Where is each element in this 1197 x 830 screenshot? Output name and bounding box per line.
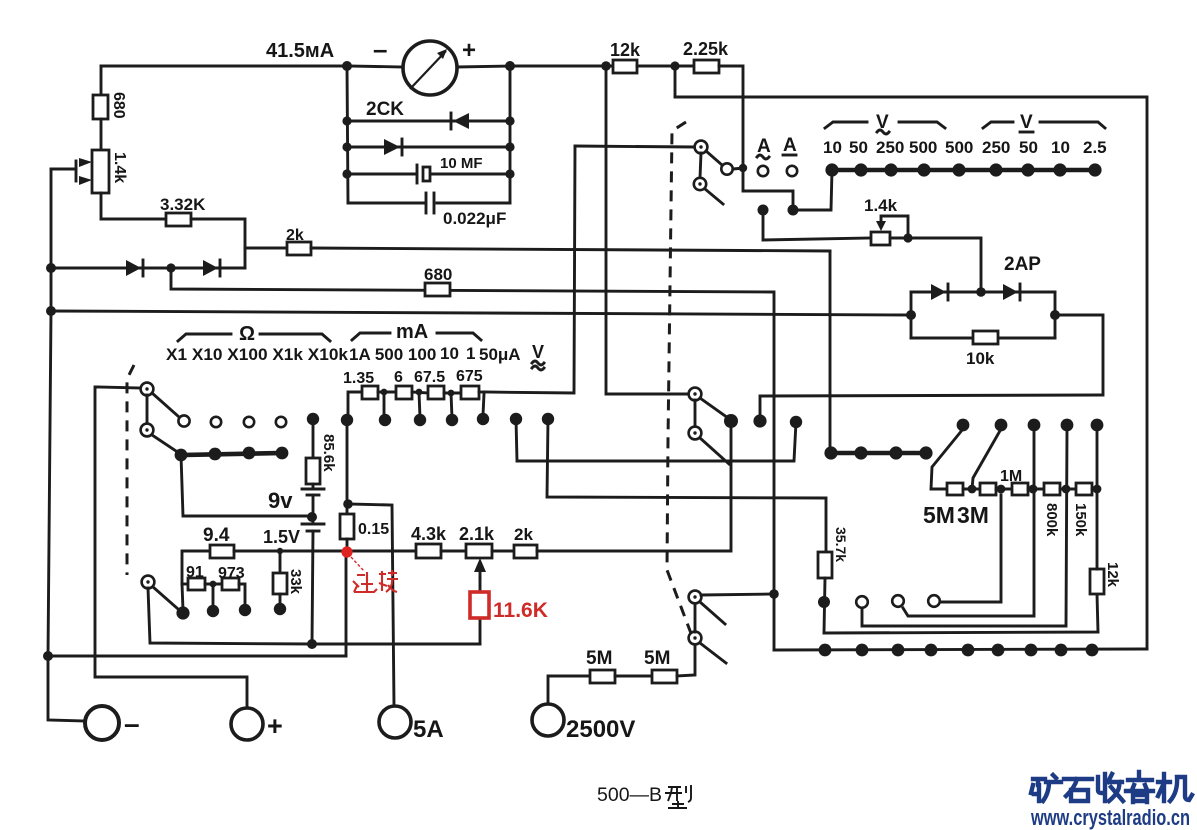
diode D2 pointing right (384, 139, 400, 155)
svg-text:10k: 10k (966, 349, 995, 368)
jack A- terminal (787, 166, 797, 176)
svg-text:1.5V: 1.5V (263, 527, 300, 547)
switch S3 contact F (689, 591, 702, 604)
switch S2 blade lower open (700, 438, 729, 464)
svg-text:–: – (373, 34, 387, 64)
wire jog to V bus (793, 170, 832, 210)
diode D1 2CK pointing left (453, 113, 469, 129)
switch S5 blade (153, 587, 178, 609)
wire 2.25k right and drop (719, 66, 793, 210)
wire dot5 vertical (1096, 429, 1099, 489)
wire node e right end (1092, 488, 1097, 491)
junction pivot vertical (739, 164, 747, 172)
wire capacitor row 10MF (347, 173, 416, 176)
junction row2 left (342, 116, 351, 125)
stub 213 down (212, 584, 215, 608)
wire 91 to 973 (205, 583, 222, 586)
wire bridge right to long drop (760, 315, 1103, 421)
wire to 9V battery (312, 484, 315, 489)
resistor R 5M chain (947, 483, 963, 495)
wire pot to bridge (890, 238, 981, 292)
svg-text:10: 10 (1051, 138, 1070, 157)
switch S4 blade upper (152, 393, 179, 417)
resistor R 6 (396, 386, 412, 399)
svg-text:www.crystalradio.cn: www.crystalradio.cn (1030, 805, 1190, 830)
wire meter left lead (347, 66, 403, 67)
svg-text:675: 675 (456, 368, 483, 385)
resistor R 1.35 (362, 386, 378, 399)
junction diode row middle (166, 263, 175, 272)
junction meter right (505, 61, 515, 71)
wire 12k to 2.25k (637, 65, 694, 68)
svg-text:10 MF: 10 MF (440, 155, 483, 172)
wire 2k drop to mid bus (830, 251, 831, 453)
diode D4 pointing right (203, 260, 218, 276)
watermark shi glyph (1064, 779, 1092, 801)
svg-text:50: 50 (1019, 138, 1038, 157)
wire y656 (48, 655, 346, 658)
bracket mA (352, 333, 390, 340)
wire wiper down through 11.6K mod (479, 578, 482, 644)
switch contact circle c (928, 595, 940, 607)
wire dot347 down to 0.15 (346, 420, 349, 514)
svg-text:1A 500 100: 1A 500 100 (349, 345, 436, 364)
svg-text:6: 6 (394, 369, 403, 386)
wire row2 down to battery junction (181, 455, 312, 516)
main line segment (441, 550, 466, 553)
stub 182 down (182, 584, 183, 610)
svg-text:10: 10 (440, 344, 459, 363)
svg-text:5M: 5M (644, 648, 670, 669)
terminal 5A (379, 706, 411, 738)
wire mA tap 516 (516, 419, 796, 461)
svg-text:50μA: 50μA (479, 345, 521, 364)
svg-text:12k: 12k (610, 40, 641, 60)
wire mA tap 548 (547, 419, 826, 552)
svg-text:–: – (124, 708, 140, 739)
svg-text:Ω: Ω (239, 323, 255, 345)
svg-text:+: + (267, 711, 283, 741)
main line segment (492, 550, 514, 553)
resistor R 973 (222, 578, 239, 590)
svg-text:500—B: 500—B (597, 784, 662, 806)
mA shunt row wire left end (348, 392, 362, 420)
upper contact dots (957, 419, 970, 432)
wire capacitor row 0.022 (348, 202, 424, 205)
wire between 5M (615, 675, 652, 678)
wire 973 right corner down (239, 584, 245, 607)
wire 0.15 below to y656 (345, 552, 348, 656)
bracket V~ group (825, 122, 867, 128)
svg-text:2.25k: 2.25k (683, 39, 729, 59)
wire 680-line from diode junction (171, 268, 774, 650)
diode D6 2AP (1003, 284, 1018, 300)
jack A~ terminal (758, 166, 768, 176)
junction dots V bus (825, 163, 838, 176)
wire top rail from left corner to meter (101, 65, 347, 68)
bracket V- group (983, 122, 1013, 128)
SECTION: middle (43, 61, 826, 706)
switch S1 contact C (694, 178, 706, 190)
watermark yin glyph (1126, 772, 1153, 802)
wire 5M to switch S3 (677, 645, 695, 676)
dashed linkage left (127, 365, 134, 575)
wire long line y312 to bridge (51, 311, 912, 315)
svg-text:3M: 3M (957, 502, 989, 528)
wire pot bottom to 3.32K (101, 193, 166, 219)
junction left of jog (758, 205, 769, 216)
junction 0.15 top (343, 499, 353, 509)
svg-text:3.32K: 3.32K (160, 195, 206, 214)
svg-text:800k: 800k (1043, 503, 1060, 537)
label xing glyph (665, 785, 691, 808)
wire V bus (831, 168, 1095, 173)
wire pivot to vertical (733, 168, 744, 169)
junction row4 right (505, 169, 514, 178)
stub to dot (383, 392, 386, 418)
switch S3 contact G (689, 632, 702, 645)
junction y644 (307, 639, 317, 649)
wire left branch vertical (347, 66, 348, 203)
switch S1 blade to pivot (706, 151, 722, 165)
resistor R 1M chain (1012, 483, 1028, 495)
switch S4 wire in (97, 387, 141, 388)
svg-text:V: V (1020, 112, 1033, 133)
switch contact circle a (856, 596, 868, 608)
resistor R 680 (top left, vertical) (93, 95, 108, 119)
junction meter left (342, 61, 352, 71)
resistor R 2k (upper) (287, 242, 311, 255)
wire diode row 2CK (347, 120, 510, 123)
svg-text:680: 680 (424, 265, 452, 284)
svg-text:150k: 150k (1072, 503, 1089, 537)
junction left rail long line (46, 306, 56, 316)
resistor R 800k chain (1044, 483, 1060, 495)
resistor R 680 (middle) (425, 283, 450, 296)
wire box top edge (675, 97, 1147, 649)
wire node a (963, 488, 980, 491)
resistor R 35.7k vertical (818, 552, 832, 578)
junction row4 left (342, 169, 351, 178)
battery B2 1.5V (302, 523, 324, 526)
wire node c (1028, 488, 1044, 491)
junction battery mid (307, 512, 317, 522)
contact dots row1 filled (307, 413, 319, 425)
wire bottom bus (774, 649, 1147, 650)
dashed switch linkage upper (667, 122, 692, 636)
contact dots under wafer (176, 606, 189, 619)
resistor R 33k vertical (273, 573, 287, 594)
resistor R 67.5 (428, 386, 444, 399)
wire to 1.4k pot (763, 210, 871, 240)
watermark kuang glyph (1031, 775, 1061, 801)
svg-text:9.4: 9.4 (203, 525, 230, 546)
junction at top rail (601, 61, 611, 71)
switch S1 contact A (695, 141, 708, 154)
svg-text:5M: 5M (586, 648, 612, 669)
meter M1 (galvanometer) (403, 41, 457, 95)
switch contact circle b (892, 595, 904, 607)
junction blade dot (724, 414, 738, 428)
wire bottom return to 12k (824, 594, 1098, 633)
main line to right riser (537, 421, 731, 551)
junction bridge top (976, 287, 986, 297)
wire 33k from main line (279, 551, 282, 573)
bracket Ohm (178, 334, 231, 341)
mid bus wire (831, 451, 926, 456)
svg-text:5M: 5M (923, 502, 955, 528)
pot wiper arm with arrows (51, 168, 76, 171)
wire node b (996, 488, 1012, 491)
switch S3 blade upper open (700, 602, 725, 624)
svg-text:4.3k: 4.3k (411, 524, 447, 544)
svg-text:2.1k: 2.1k (459, 524, 495, 544)
wire meter right lead (457, 66, 510, 67)
svg-text:500: 500 (909, 138, 937, 157)
junction y656 left (43, 651, 53, 661)
junction bridge right (1050, 310, 1060, 320)
switch S3 link (694, 603, 697, 632)
resistor R 10k (973, 331, 998, 344)
wire dot313 down (312, 419, 315, 458)
junction dots bottom bus (819, 644, 832, 657)
svg-text:35.7k: 35.7k (833, 527, 849, 562)
switch S1 blade C open (705, 189, 723, 204)
wire right end and stub (479, 391, 484, 394)
svg-text:680: 680 (110, 92, 127, 119)
SECTION: texts (1030, 772, 1192, 830)
switch S5 contact (142, 576, 155, 589)
junction dot 760 (753, 414, 766, 427)
wire diode row 3 (347, 146, 510, 149)
resistor R 12k (613, 60, 637, 73)
capacitor C1 10MF electrolytic (416, 165, 419, 183)
svg-text:2.5: 2.5 (1083, 138, 1107, 157)
wire node d (1060, 488, 1076, 491)
wire between batteries (312, 495, 315, 524)
switch S2 wire in (606, 66, 689, 394)
switch S2 link (694, 400, 697, 427)
svg-text:2500V: 2500V (566, 716, 635, 743)
resistor R 2k (main line) (514, 545, 537, 558)
resistor mod 11.6K red box (470, 592, 489, 618)
wire jog from 0.15 top down to 5A terminal (348, 504, 394, 706)
svg-text:67.5: 67.5 (414, 369, 445, 386)
wire 33k down (279, 594, 282, 606)
rotary upper wafer: open contacts ohm (178, 415, 189, 426)
svg-text:250: 250 (982, 138, 1010, 157)
svg-text:+: + (462, 37, 476, 64)
svg-text:500: 500 (945, 138, 973, 157)
svg-text:mA: mA (396, 321, 428, 343)
svg-text:2k: 2k (286, 227, 304, 244)
junction bridge left (906, 310, 916, 320)
svg-text:12k: 12k (1104, 562, 1121, 588)
wire y644 right part (312, 643, 480, 646)
main line left end drop (182, 551, 210, 584)
SECTION: top right (510, 39, 1147, 649)
wire S3 to vertical (701, 594, 774, 595)
wire diag dot2 to node a (972, 429, 1001, 489)
junction pot right (903, 233, 912, 242)
junction red connect dot (341, 546, 352, 557)
resistor R 3M chain (980, 483, 996, 495)
resistor R 4.3k (416, 544, 441, 558)
capacitor C2 0.022uF (425, 193, 428, 213)
bridge left side (910, 292, 913, 338)
resistor R 5M second (652, 670, 677, 683)
battery B1 9V (302, 488, 324, 491)
svg-text:250: 250 (876, 138, 904, 157)
watermark shou glyph (1098, 774, 1123, 801)
wire meter to 12k (510, 65, 613, 68)
potentiometer RP 1.4k (top right) (871, 232, 890, 245)
wire and junction 2 (412, 392, 428, 393)
switch S1 wire from mA range (575, 146, 694, 147)
resistor R 2.25k (694, 60, 719, 73)
wire dot3 vertical to staircase2 (903, 429, 1034, 616)
bridge bottom line (911, 337, 1055, 340)
left rail vertical (48, 169, 85, 721)
switch S4 contact I (141, 424, 154, 437)
svg-text:2CK: 2CK (366, 99, 404, 120)
resistor R 3.32K (166, 213, 191, 226)
wire 680 to pot (100, 119, 103, 150)
svg-text:1M: 1M (1000, 468, 1022, 485)
svg-text:0.15: 0.15 (358, 521, 389, 538)
switch S4 blade lower (152, 435, 179, 453)
svg-text:11.6K: 11.6K (493, 599, 548, 622)
switch S4 contact H (141, 383, 154, 396)
potentiometer RP 2.1k (466, 544, 492, 558)
svg-text:973: 973 (218, 565, 245, 582)
switch S4 link (146, 395, 149, 424)
resistor R 675 (461, 386, 479, 399)
svg-text:1.35: 1.35 (343, 370, 374, 387)
SECTION: bottom (85, 387, 1147, 808)
junction below jog (788, 205, 799, 216)
diode D5 2AP (931, 284, 946, 300)
svg-text:V: V (532, 342, 544, 362)
meter needle (410, 51, 446, 89)
pot wiper arrow (881, 216, 908, 238)
terminal minus (85, 706, 119, 740)
svg-text:5A: 5A (413, 716, 444, 743)
svg-text:50: 50 (849, 138, 868, 157)
svg-text:2AP: 2AP (1004, 254, 1041, 275)
junction box stub (670, 61, 679, 70)
resistor R 5M first (590, 670, 615, 683)
svg-text:41.5мA: 41.5мA (266, 40, 334, 62)
junction row3 left (342, 142, 351, 151)
resistor R 0.15 vertical (340, 514, 354, 539)
junction row3 right (505, 142, 514, 151)
wire dot4 vertical to staircase1 (862, 429, 1067, 626)
terminal 2500V (532, 704, 564, 736)
pot 2.1k wiper arrow up (479, 566, 482, 578)
switch S2 contact D (689, 388, 702, 401)
junction 35.7k bottom (818, 596, 830, 608)
svg-text:X1 X10 X100 X1k X10k: X1 X10 X100 X1k X10k (166, 345, 349, 364)
terminal plus (231, 708, 263, 740)
svg-text:91: 91 (186, 564, 204, 581)
ohm bus row2 (181, 453, 282, 455)
junction dots mid bus (824, 446, 837, 459)
switch S2 contact E (689, 427, 702, 440)
junction row2 right (505, 116, 514, 125)
rotary lower wafer 91/973 row (182, 583, 188, 586)
wire 3.32K right to corner (191, 219, 245, 268)
wire diag dot1 to chain left (931, 429, 963, 489)
potentiometer RP 1.4k (vertical) (92, 150, 109, 193)
wire S5 down to y644 (148, 588, 312, 644)
svg-text:10: 10 (823, 138, 842, 157)
wire box left stub (674, 66, 677, 97)
wire 35.7k down (824, 578, 825, 633)
svg-text:85.6k: 85.6k (320, 434, 337, 472)
wire 0.15 to main line (346, 539, 349, 552)
wire mA row to 50uA riser (484, 146, 575, 393)
main line segment (234, 550, 416, 553)
svg-text:33k: 33k (287, 569, 304, 595)
switch S1 pivot circle (721, 163, 732, 174)
label lianjie red glyphs (353, 570, 398, 592)
junction left rail diode row (46, 263, 56, 273)
bridge right side (1054, 292, 1057, 338)
wire and junction 1 (378, 391, 396, 394)
wire 12k up to chain (1096, 489, 1099, 569)
wire top-left corner down to 680 (100, 66, 103, 95)
diode D3 pointing right (126, 260, 141, 276)
svg-text:A: A (783, 135, 797, 156)
resistor R 12k vertical (1090, 569, 1104, 594)
wire diode row left (51, 267, 245, 270)
switch S2 blade upper (700, 398, 728, 418)
bridge 2AP top line (911, 291, 1055, 294)
resistor R 85.6k vertical (306, 458, 320, 484)
svg-text:1.4k: 1.4k (111, 152, 128, 183)
resistor R 9.4 (210, 545, 234, 558)
svg-text:2k: 2k (514, 525, 533, 544)
wire battery down to y644 (312, 531, 313, 644)
svg-text:9v: 9v (268, 488, 293, 513)
SECTION: right (818, 251, 1121, 633)
SECTION: top-left meter block (101, 34, 515, 228)
svg-text:0.022μF: 0.022μF (443, 209, 506, 228)
svg-text:1: 1 (466, 344, 475, 363)
SECTION: left column (46, 66, 912, 721)
wire 2500V up to 5M (548, 676, 590, 704)
wire circle c to node b (940, 495, 1001, 602)
wire 2k branch (245, 247, 287, 250)
wire and junction 3 (444, 392, 461, 395)
svg-text:1.4k: 1.4k (864, 196, 898, 215)
wire plus terminal up and left (95, 387, 247, 708)
resistor R 150k chain (1076, 483, 1092, 495)
junction S3 wire (769, 589, 779, 599)
switch S1 link A-C (700, 153, 701, 178)
resistor R 91 (188, 578, 205, 590)
watermark ji glyph (1158, 774, 1192, 801)
junction dots row2 (175, 449, 188, 462)
junction dot 796 (790, 416, 802, 428)
switch S3 blade lower open (700, 643, 726, 663)
wire 2k long line to right drop (311, 248, 830, 251)
wire right branch vertical (509, 66, 512, 203)
